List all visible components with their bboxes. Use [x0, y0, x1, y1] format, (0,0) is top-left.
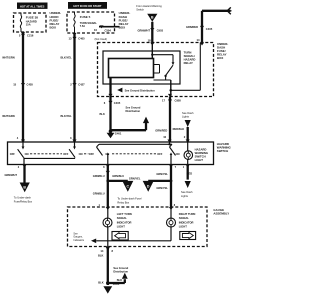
svg-text:GRN/WHT: GRN/WHT — [5, 173, 18, 177]
svg-text:14: 14 — [100, 249, 103, 253]
svg-text:Lights: Lights — [182, 114, 190, 118]
svg-text:See Dash: See Dash — [181, 190, 193, 194]
svg-text:Fuse/Relay Box: Fuse/Relay Box — [14, 199, 33, 203]
svg-text:GRN/BLU: GRN/BLU — [93, 192, 105, 196]
svg-text:13: 13 — [69, 36, 72, 40]
svg-text:FUSE 38: FUSE 38 — [26, 16, 39, 20]
svg-text:10: 10 — [163, 135, 166, 139]
svg-text:C905: C905 — [175, 98, 182, 102]
svg-text:WHT/GRN: WHT/GRN — [2, 114, 15, 118]
svg-text:GRN/YEL: GRN/YEL — [129, 176, 141, 180]
svg-text:GRN/BLU: GRN/BLU — [93, 174, 105, 178]
svg-text:C455: C455 — [27, 83, 34, 87]
svg-text:HOT IN ON OR START: HOT IN ON OR START — [73, 4, 102, 8]
svg-text:Distribution: Distribution — [113, 270, 128, 274]
svg-text:17: 17 — [162, 98, 165, 102]
svg-text:BLK: BLK — [98, 281, 103, 285]
svg-text:See Ground: See Ground — [113, 266, 128, 270]
svg-text:RED/BLK: RED/BLK — [173, 127, 185, 131]
svg-text:G401: G401 — [113, 282, 120, 286]
svg-text:OFF: OFF — [89, 152, 95, 156]
svg-text:To Under-dash Fuse/: To Under-dash Fuse/ — [117, 197, 141, 201]
svg-text:To Under-dash: To Under-dash — [14, 196, 32, 200]
svg-text:ON: ON — [25, 152, 29, 156]
svg-text:INDICATOR: INDICATOR — [179, 220, 194, 224]
svg-text:GRN/RED: GRN/RED — [155, 128, 167, 132]
svg-text:GRN/YEL: GRN/YEL — [156, 186, 168, 190]
svg-text:7.5A: 7.5A — [80, 25, 85, 28]
svg-text:SWITCH: SWITCH — [217, 149, 228, 153]
svg-text:HOT AT ALL TIMES: HOT AT ALL TIMES — [20, 4, 45, 8]
svg-text:G401: G401 — [115, 131, 122, 135]
svg-text:C504: C504 — [105, 28, 112, 32]
svg-text:See Ground: See Ground — [126, 105, 141, 109]
svg-text:C427: C427 — [78, 83, 85, 87]
svg-text:OFF: OFF — [10, 152, 16, 156]
svg-text:GRN/RED: GRN/RED — [186, 25, 198, 29]
svg-text:C903: C903 — [157, 28, 164, 32]
svg-text:BOX: BOX — [119, 26, 126, 30]
svg-text:(Not Used): (Not Used) — [95, 37, 108, 41]
svg-text:14: 14 — [197, 38, 200, 42]
svg-text:BLK: BLK — [117, 278, 122, 282]
svg-text:OFF: OFF — [157, 152, 163, 156]
svg-text:RIGHT TURN: RIGHT TURN — [179, 212, 196, 216]
svg-text:WHT/GRN: WHT/GRN — [2, 56, 15, 60]
svg-text:See Ground Distribution: See Ground Distribution — [125, 89, 156, 93]
svg-text:15: 15 — [13, 83, 16, 87]
svg-text:Lights: Lights — [181, 194, 189, 198]
svg-text:GRN/WHT: GRN/WHT — [138, 28, 151, 32]
svg-text:BOX: BOX — [217, 56, 223, 60]
svg-text:C216: C216 — [27, 33, 34, 37]
svg-text:FUSE 5: FUSE 5 — [80, 15, 91, 19]
svg-text:BOX: BOX — [50, 26, 57, 30]
svg-text:BLK: BLK — [100, 112, 105, 116]
svg-text:LIGHT: LIGHT — [179, 225, 187, 229]
svg-text:BLK: BLK — [98, 254, 103, 258]
svg-text:ON: ON — [176, 152, 180, 156]
svg-text:SIGNAL: SIGNAL — [179, 216, 190, 220]
svg-text:Switch: Switch — [136, 7, 144, 11]
svg-text:See Dash: See Dash — [182, 111, 194, 115]
svg-text:From Hazard Warning: From Hazard Warning — [136, 4, 162, 8]
svg-text:ASSEMBLY: ASSEMBLY — [213, 211, 229, 215]
svg-text:10: 10 — [94, 28, 97, 32]
svg-text:BLK/YEL: BLK/YEL — [61, 56, 73, 60]
svg-text:C405: C405 — [78, 36, 85, 40]
svg-text:C405: C405 — [114, 101, 121, 105]
svg-text:Distribution: Distribution — [126, 109, 141, 113]
svg-text:RED: RED — [187, 172, 193, 176]
svg-text:LIGHT: LIGHT — [195, 158, 204, 162]
svg-text:C405: C405 — [206, 27, 213, 31]
svg-text:SIGNAL: SIGNAL — [117, 216, 128, 220]
svg-text:Indicators: Indicators — [73, 239, 84, 242]
svg-text:INDICATOR: INDICATOR — [117, 220, 132, 224]
svg-text:OFF: OFF — [63, 152, 69, 156]
svg-text:15A: 15A — [26, 23, 31, 27]
svg-text:LEFT TURN: LEFT TURN — [117, 212, 132, 216]
svg-text:RELAY: RELAY — [184, 61, 193, 65]
svg-text:BLK/YEL: BLK/YEL — [61, 114, 73, 118]
svg-text:GRN/YEL: GRN/YEL — [156, 172, 168, 176]
svg-text:ON: ON — [79, 152, 83, 156]
svg-text:LIGHT: LIGHT — [117, 225, 125, 229]
svg-text:Relay Box: Relay Box — [117, 200, 130, 204]
svg-text:GRN/BLU: GRN/BLU — [112, 174, 124, 178]
